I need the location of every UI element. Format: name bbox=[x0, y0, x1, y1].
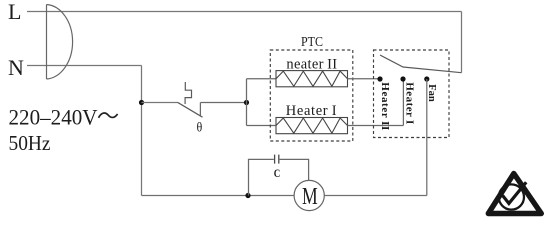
resistor heater I (PTC element) bbox=[276, 118, 348, 134]
wire PTC left vertical bbox=[246, 79, 248, 126]
wire to heater I bbox=[247, 125, 277, 127]
wire bottom line bbox=[142, 195, 427, 197]
wire fan contact to motor line bbox=[426, 79, 428, 196]
wire N line bbox=[27, 65, 142, 67]
svg-text:Fan: Fan bbox=[426, 84, 438, 102]
wire heater II to selector contact bbox=[348, 78, 381, 80]
thermostat fixed contact bbox=[200, 103, 246, 116]
node junction at PTC split bbox=[244, 100, 249, 105]
node contact Heater I bbox=[400, 76, 405, 81]
dashed box PTC bbox=[270, 50, 353, 141]
svg-text:N: N bbox=[8, 55, 24, 80]
svg-text:PTC: PTC bbox=[301, 35, 323, 50]
wire heater I to selector contact bbox=[348, 79, 404, 126]
resistor heater II (PTC element) bbox=[276, 71, 348, 87]
wire to heater II bbox=[247, 78, 277, 80]
thermostat actuator symbol bbox=[185, 82, 191, 104]
svg-text:Heater I: Heater I bbox=[403, 82, 415, 124]
logo RCM mark bbox=[488, 174, 541, 214]
wire L line bbox=[27, 11, 462, 13]
node junction capacitor branch bbox=[245, 193, 250, 198]
node contact Heater II bbox=[377, 76, 382, 81]
thermostat switch blade bbox=[178, 102, 203, 117]
svg-text:220–240V: 220–240V bbox=[9, 105, 98, 130]
wire L drop to selector bbox=[461, 12, 463, 73]
svg-text:C: C bbox=[274, 166, 281, 180]
selector switch blade bbox=[380, 55, 462, 73]
plug P1 bbox=[47, 5, 73, 80]
node contact Fan bbox=[424, 76, 429, 81]
capacitor C1 plates bbox=[275, 155, 279, 164]
svg-text:Heater II: Heater II bbox=[379, 82, 391, 130]
motor M1 circle bbox=[294, 180, 324, 210]
svg-text:θ: θ bbox=[197, 120, 203, 135]
svg-text:M: M bbox=[302, 183, 318, 210]
dashed box selector switch bbox=[374, 50, 450, 138]
svg-text:50Hz: 50Hz bbox=[9, 131, 51, 155]
node junction at thermostat branch bbox=[139, 100, 144, 105]
svg-text:Heater I: Heater I bbox=[286, 103, 337, 119]
wire capacitor branch bbox=[249, 159, 309, 195]
wire to thermostat bbox=[142, 102, 178, 104]
wire N vertical drop bbox=[141, 66, 143, 196]
svg-text:L: L bbox=[8, 0, 21, 24]
